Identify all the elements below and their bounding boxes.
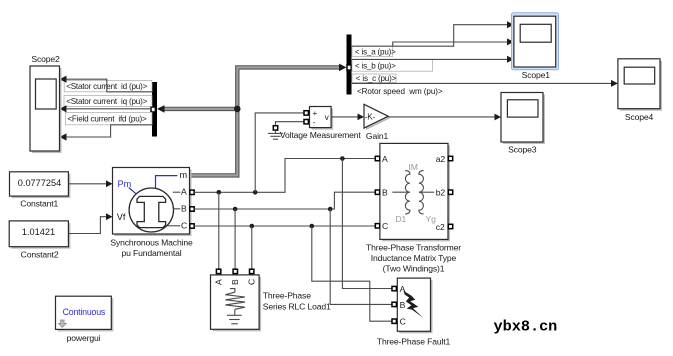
scope Scope1: [514, 16, 556, 67]
wire Constant1 to Pm: [68, 183, 108, 185]
wire Gain1 to Scope3: [388, 116, 495, 118]
arrowhead Vf input: [106, 213, 113, 220]
VM port minus: [304, 120, 308, 124]
svg-text:C: C: [382, 221, 388, 231]
selection highlight Scope1: [512, 13, 559, 70]
wire bus1 out1 to Scope2 in1: [62, 79, 153, 92]
signal label box Stator current id: [64, 81, 152, 92]
arrowhead Scope1 in2: [507, 38, 514, 45]
arrowhead Gain1 input: [358, 114, 365, 121]
scope Scope3 shadow: [503, 95, 545, 145]
wire branch to Scope1 in2: [393, 42, 509, 46]
machine Synchronous Machine block: [113, 168, 190, 235]
scope Scope1 display: [520, 24, 551, 42]
transformer lead right: [419, 191, 434, 193]
scope Scope4: [618, 59, 660, 109]
svg-text:(Two Windings)1: (Two Windings)1: [383, 264, 445, 274]
signal label box Stator current iq: [64, 95, 152, 106]
svg-text:D1: D1: [396, 214, 407, 224]
transformer port c2: [448, 224, 452, 228]
wire bus from machine m to junction: [190, 67, 341, 175]
ground symbol: [268, 130, 283, 139]
arrowhead Scope3 input: [495, 114, 502, 121]
transformer lead left: [392, 191, 409, 193]
svg-text:Series RLC Load1: Series RLC Load1: [263, 302, 331, 312]
machine Synchronous Machine shadow: [115, 170, 192, 237]
arrowhead Scope2 in1: [60, 76, 67, 83]
bus selector 2 input marker: [347, 65, 351, 70]
load port B: [233, 269, 237, 273]
svg-text:B: B: [382, 188, 388, 198]
arrowhead Pm input: [106, 180, 113, 187]
signal label box Field current ifd: [66, 112, 153, 124]
voltage measurement block: [310, 107, 332, 128]
fault lightning bolt: [403, 291, 423, 318]
wire VM to Gain1: [331, 116, 358, 118]
arrowhead Scope1 in3: [507, 56, 514, 63]
transformer port C: [375, 224, 379, 228]
signal label box is_a: [352, 46, 393, 56]
ground port square: [273, 126, 277, 130]
junction dot load C tap: [250, 224, 255, 229]
svg-text:Three-Phase Transformer: Three-Phase Transformer: [366, 243, 461, 253]
wire phase B machine to transformer: [194, 192, 375, 209]
svg-text:Scope3: Scope3: [508, 145, 537, 155]
arrowhead Scope1 in1: [507, 21, 514, 28]
svg-text:powergui: powergui: [67, 333, 101, 343]
wire bus1 out3 to Scope2 in3: [62, 125, 153, 137]
junction bus dot: [234, 106, 241, 113]
machine output port C: [190, 224, 194, 228]
fault port B: [392, 302, 396, 306]
load ground stem: [234, 309, 236, 315]
svg-text:Scope1: Scope1: [522, 70, 551, 80]
svg-text:pu Fundamental: pu Fundamental: [121, 248, 181, 258]
wire ground to VM minus: [276, 122, 305, 126]
wire is_c to Scope4: [352, 82, 612, 84]
wire is_a to Scope1 in1: [352, 25, 509, 47]
machine output port B: [190, 207, 194, 211]
arrowhead into bus selector 1: [157, 105, 165, 113]
svg-text:0.0777254: 0.0777254: [18, 178, 61, 188]
load Three-Phase Series RLC Load1 block: [211, 275, 260, 329]
svg-text:m: m: [180, 170, 188, 180]
svg-text:C: C: [247, 279, 257, 285]
svg-text:Three-Phase: Three-Phase: [263, 291, 311, 301]
svg-text:a2: a2: [436, 154, 446, 164]
fault block shadow: [399, 280, 432, 333]
load resistor zigzag: [225, 292, 245, 309]
svg-text:Constant2: Constant2: [21, 249, 59, 259]
bus selector 1 input marker: [151, 107, 155, 112]
powergui block shadow: [58, 298, 114, 331]
svg-text:C: C: [181, 221, 187, 231]
signal label box is_c: [352, 74, 396, 82]
load port A: [216, 269, 220, 273]
wire is_b to Scope1 in3: [352, 58, 509, 60]
signal label box is_b: [352, 59, 433, 71]
svg-text:<Field current ifd (pu)>: <Field current ifd (pu)>: [67, 114, 147, 123]
transformer port B: [375, 190, 379, 194]
scope Scope3 display: [507, 100, 538, 117]
svg-text:A: A: [214, 279, 224, 285]
transformer winding right: [419, 171, 424, 214]
svg-text:<Stator current id (pu)>: <Stator current id (pu)>: [66, 82, 147, 91]
junction dot fault C tap: [310, 224, 315, 229]
machine port line B: [173, 208, 180, 210]
junction dot fault A tap: [340, 156, 345, 161]
load top lead: [230, 289, 235, 293]
svg-text:Scope2: Scope2: [31, 54, 60, 64]
wire fault A drop: [342, 159, 392, 289]
blue Pm tail: [129, 188, 137, 194]
machine rotor circle: [129, 188, 173, 232]
svg-text:1.01421: 1.01421: [22, 227, 55, 237]
wire fault C route: [312, 226, 392, 321]
svg-text:Synchronous Machine: Synchronous Machine: [110, 238, 193, 248]
blue m line: [156, 176, 178, 189]
svg-text:<Stator current iq (pu)>: <Stator current iq (pu)>: [66, 97, 147, 106]
constant Constant2: [9, 221, 68, 247]
fault port C: [392, 319, 396, 323]
constant Constant1: [10, 172, 69, 196]
wire load A drop: [218, 192, 220, 269]
gain Gain1 triangle: [364, 104, 388, 128]
load block shadow: [213, 277, 262, 331]
powergui down arrow: [58, 320, 66, 327]
svg-text:< is_c (pu)>: < is_c (pu)>: [356, 74, 397, 83]
arrowhead Scope2 in2: [60, 105, 67, 112]
wire bus branch to bus selector 1: [164, 107, 238, 111]
svg-text:Constant1: Constant1: [20, 198, 58, 208]
machine port line A: [173, 191, 181, 193]
svg-text:+: +: [313, 109, 318, 118]
transformer port b2: [448, 190, 452, 194]
load ground bars: [227, 315, 242, 324]
powergui block: [56, 296, 112, 329]
wire Constant2 to Vf: [68, 217, 107, 234]
junction dot fault B tap: [328, 207, 333, 212]
wire VM riser: [255, 113, 304, 192]
wire phase C machine to transformer: [194, 225, 375, 227]
svg-text:c2: c2: [436, 222, 445, 232]
transformer Three-Phase Transformer block: [380, 143, 448, 239]
svg-text:B: B: [181, 204, 187, 214]
svg-text:A: A: [382, 154, 388, 164]
constant Constant1 shadow: [12, 174, 71, 198]
gain Gain1 shadow: [366, 106, 390, 130]
transformer port a2: [448, 156, 452, 160]
bus selector 2: [347, 35, 352, 95]
VM port plus: [304, 111, 308, 115]
wire load B drop: [234, 209, 236, 269]
svg-text:B: B: [230, 279, 240, 285]
transformer block shadow: [382, 145, 450, 241]
junction dot VM tap: [253, 190, 258, 195]
svg-text:Inductance Matrix Type: Inductance Matrix Type: [371, 253, 457, 263]
scope Scope4 display: [624, 67, 655, 84]
svg-text:b2: b2: [436, 188, 446, 198]
svg-text:< is_b (pu)>: < is_b (pu)>: [355, 62, 396, 71]
load port C: [250, 269, 254, 273]
machine port line C: [168, 225, 181, 227]
arrowhead Scope4 input: [611, 80, 618, 87]
wire fault B drop: [330, 209, 392, 304]
scope Scope2 shadow: [32, 68, 62, 153]
scope Scope2: [30, 66, 60, 151]
svg-text:Continuous: Continuous: [63, 307, 106, 317]
wire bus1 out2 to Scope2 in2: [62, 108, 153, 110]
svg-text:Gain1: Gain1: [366, 131, 389, 141]
junction dot load A tap: [217, 190, 222, 195]
svg-text:-K-: -K-: [365, 113, 376, 122]
svg-text:C: C: [400, 317, 406, 327]
scope Scope2 display: [36, 79, 57, 109]
fault port A: [392, 286, 396, 290]
svg-text:<Rotor speed wm (pu)>: <Rotor speed wm (pu)>: [357, 87, 443, 96]
arrowhead into bus selector 2: [339, 64, 347, 72]
svg-text:IM: IM: [409, 162, 418, 172]
wire phase A machine to transformer: [194, 159, 375, 193]
wire load C drop: [251, 226, 253, 269]
svg-text:A: A: [181, 187, 187, 197]
transformer winding left: [405, 171, 410, 214]
svg-text:Yg: Yg: [426, 214, 437, 224]
constant Constant2 shadow: [11, 223, 70, 249]
bus selector 1: [152, 82, 157, 137]
machine I-beam icon: [137, 196, 166, 227]
svg-text:B: B: [400, 300, 406, 310]
arrowhead Scope2 in3: [60, 133, 67, 140]
transformer port A: [375, 156, 379, 160]
machine output port A: [190, 190, 194, 194]
svg-text:Voltage Measurement: Voltage Measurement: [280, 130, 362, 140]
voltage measurement U1 shadow: [312, 109, 334, 130]
fault Three-Phase Fault1 block: [397, 278, 430, 331]
svg-text:Vf: Vf: [117, 212, 126, 222]
svg-text:Three-Phase Fault1: Three-Phase Fault1: [377, 337, 451, 347]
scope Scope3: [501, 93, 543, 143]
svg-text:ybx8.cn: ybx8.cn: [494, 318, 558, 336]
scope Scope4 shadow: [620, 61, 662, 111]
svg-text:< is_a (pu)>: < is_a (pu)>: [355, 48, 396, 57]
svg-text:Scope4: Scope4: [625, 112, 654, 122]
junction dot load B tap: [233, 207, 238, 212]
